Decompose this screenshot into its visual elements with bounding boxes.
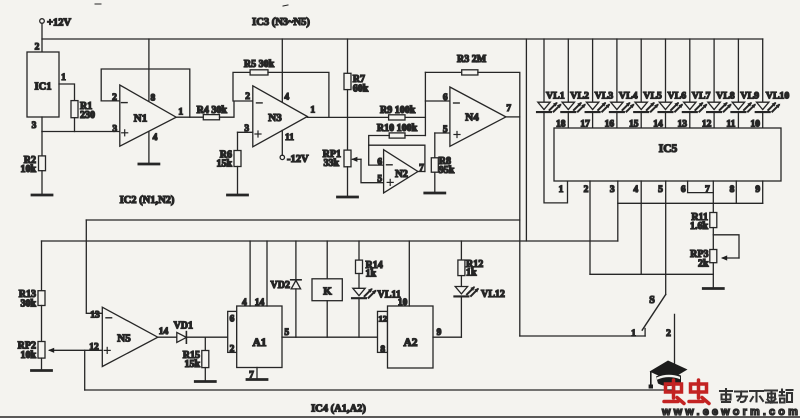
- resistor R10 100k: [389, 133, 405, 138]
- wire R7 chain from rail: [347, 39, 349, 73]
- resistor R5 30k: [250, 70, 268, 75]
- LED VL12: [460, 276, 462, 287]
- svg-text:-12V: -12V: [287, 154, 309, 165]
- svg-text:IC3 (N3~N5): IC3 (N3~N5): [252, 17, 310, 28]
- wire ground bus pin2-pin4-RP3: [590, 273, 713, 275]
- svg-text:VL6: VL6: [668, 91, 687, 102]
- svg-text:6: 6: [230, 314, 235, 324]
- resistor R14 1k: [358, 241, 360, 260]
- svg-text:S: S: [649, 295, 655, 306]
- resistor R12 1k: [460, 241, 462, 260]
- svg-text:1: 1: [631, 329, 636, 339]
- wire N4 pin6: [425, 100, 450, 102]
- svg-text:R10 100k: R10 100k: [377, 123, 418, 134]
- svg-text:1: 1: [310, 106, 315, 116]
- LED VL6: [665, 39, 667, 102]
- wire RP2 wiper to N5 pin12: [50, 349, 103, 351]
- wire +12V down to rail and IC1: [41, 23, 43, 52]
- svg-text:VD1: VD1: [174, 321, 193, 332]
- op-amp N4: [450, 87, 506, 146]
- svg-text:N5: N5: [117, 333, 131, 345]
- op-amp N3: [253, 86, 308, 147]
- LED VL10: [762, 39, 764, 102]
- svg-text:6: 6: [681, 185, 686, 195]
- svg-text:IC2 (N1,N2): IC2 (N1,N2): [120, 195, 175, 206]
- svg-text:7: 7: [705, 185, 710, 195]
- svg-text:2: 2: [584, 185, 589, 195]
- svg-text:R3 2M: R3 2M: [457, 54, 487, 65]
- svg-text:8: 8: [380, 345, 385, 355]
- wire R3 right to N4 output: [478, 72, 520, 117]
- svg-text:VL5: VL5: [643, 91, 662, 102]
- svg-text:1.6k: 1.6k: [690, 221, 709, 232]
- svg-text:1: 1: [61, 73, 66, 83]
- wire +12V drop left of IC5: [525, 39, 527, 241]
- svg-text:VL12: VL12: [481, 289, 505, 300]
- ground under RP3: [712, 263, 714, 289]
- svg-text:10k: 10k: [20, 350, 36, 361]
- resistor R9 100k: [389, 115, 405, 120]
- svg-text:+12V: +12V: [47, 18, 71, 29]
- svg-text:5: 5: [377, 175, 382, 185]
- resistor R4 30k: [203, 115, 219, 120]
- svg-text:12: 12: [378, 313, 387, 323]
- op-amp N1: [120, 85, 176, 146]
- wire A1 output line: [282, 336, 378, 338]
- svg-text:14: 14: [159, 327, 169, 337]
- stray scan marks: [95, 3, 101, 5]
- resistor R2 10k: [39, 156, 46, 171]
- svg-text:13: 13: [90, 311, 100, 321]
- svg-text:VD2: VD2: [271, 280, 290, 291]
- svg-text:IC1: IC1: [35, 82, 52, 93]
- svg-text:9: 9: [437, 328, 442, 338]
- wire R11 to RP3: [712, 228, 714, 250]
- resistor R3 2M: [462, 70, 478, 75]
- watermark graduation cap logo: [649, 361, 688, 389]
- resistor R7 60k: [344, 73, 351, 89]
- ground under R2: [41, 171, 43, 195]
- LED VL3: [592, 39, 594, 102]
- A1 input bracket pins 6,2: [228, 311, 237, 352]
- wire top +12V rail: [42, 38, 763, 40]
- wire N1 output to R4: [176, 116, 203, 118]
- resistor R8 95k: [434, 133, 436, 158]
- potentiometer RP3 2k: [710, 250, 717, 263]
- watermark site name text: [720, 389, 793, 403]
- wire R7 to RP1: [347, 90, 349, 151]
- svg-text:5: 5: [443, 125, 448, 135]
- svg-text:N4: N4: [465, 112, 479, 124]
- LED VL5: [640, 39, 642, 102]
- svg-text:2: 2: [35, 43, 40, 53]
- LED VL4: [616, 39, 618, 102]
- resistor R15 15k: [204, 337, 206, 350]
- potentiometer RP1 33k: [344, 150, 351, 167]
- svg-text:VL8: VL8: [716, 91, 735, 102]
- svg-text:15k: 15k: [184, 359, 200, 370]
- svg-text:4: 4: [284, 93, 289, 103]
- resistor R11 1.6k: [710, 213, 717, 228]
- svg-text:9: 9: [755, 185, 760, 195]
- wire N5 output: [158, 336, 177, 338]
- RP1 wiper arrow from N2 pin5: [353, 158, 362, 160]
- svg-text:11: 11: [285, 133, 294, 143]
- A2 input bracket pins 12,8: [378, 311, 388, 352]
- wire N1 feedback loop: [101, 69, 190, 117]
- svg-text:VL7: VL7: [692, 91, 711, 102]
- watermark red characters: [664, 380, 684, 404]
- wire IC1 pin3 down: [41, 117, 43, 132]
- svg-text:10k: 10k: [20, 164, 36, 175]
- wire S1 to N4 output: [520, 335, 645, 337]
- svg-text:VL2: VL2: [570, 91, 589, 102]
- wire bus pins 3-8-9: [618, 202, 763, 204]
- IC5: [554, 128, 781, 181]
- wire N1 pin8 from rail: [148, 39, 150, 102]
- svg-text:3: 3: [610, 185, 615, 195]
- svg-text:2: 2: [666, 329, 671, 339]
- wire +12V bus to R13 and IC5 pin3: [42, 240, 618, 242]
- svg-text:1: 1: [559, 185, 564, 195]
- LED VL8: [713, 39, 715, 102]
- potentiometer RP2 10k: [41, 306, 43, 342]
- wire R4 to N3 pin2: [220, 101, 253, 117]
- LED VL9: [737, 39, 739, 102]
- svg-text:1: 1: [178, 108, 183, 118]
- LED VL2: [567, 39, 569, 102]
- ground under RP2: [41, 358, 43, 370]
- resistor R6 15k: [237, 132, 239, 150]
- op-amp N5: [102, 307, 158, 366]
- svg-text:VL4: VL4: [619, 91, 638, 102]
- wire N2 feedback loop: [369, 145, 384, 165]
- svg-text:N3: N3: [268, 112, 282, 124]
- resistor R1 230: [71, 101, 78, 118]
- wire VL11 to output line: [358, 298, 360, 337]
- svg-text:33k: 33k: [323, 158, 339, 169]
- svg-text:2: 2: [245, 92, 250, 102]
- wire N1 pin4 + ground: [148, 132, 150, 164]
- ground under R8: [434, 172, 436, 193]
- svg-text:VL1: VL1: [546, 91, 565, 102]
- svg-text:R9 100k: R9 100k: [380, 105, 416, 116]
- svg-text:R5 30k: R5 30k: [244, 59, 275, 70]
- wire N3 pin4 from rail: [281, 39, 283, 102]
- svg-text:15k: 15k: [216, 159, 232, 170]
- op-amp N2: [384, 150, 418, 193]
- LED VL1: [543, 39, 545, 102]
- svg-text:K: K: [323, 286, 332, 298]
- svg-text:3: 3: [32, 121, 37, 131]
- svg-text:VL10: VL10: [766, 91, 790, 102]
- IC A1: [237, 306, 282, 368]
- svg-text:VL9: VL9: [740, 91, 759, 102]
- wire node A down to R2: [41, 132, 43, 156]
- relay K: [326, 241, 328, 279]
- svg-text:8: 8: [151, 94, 156, 104]
- svg-text:4: 4: [242, 298, 247, 308]
- svg-text:IC4 (A1,A2): IC4 (A1,A2): [311, 404, 366, 415]
- svg-text:5: 5: [284, 328, 289, 338]
- wire N5 pin13 drop: [86, 220, 102, 313]
- wire N3 feedback with R5: [233, 72, 250, 101]
- wire summing vertical (R3/R9/R10/N4 pin6): [424, 72, 426, 135]
- svg-text:2k: 2k: [698, 259, 709, 270]
- wire pins 6-7 down to R11: [712, 193, 714, 213]
- svg-text:A1: A1: [252, 337, 266, 349]
- wire R5 right to N3 output: [268, 72, 329, 117]
- svg-text:10: 10: [398, 298, 408, 308]
- ground under R15: [204, 368, 206, 382]
- wire VD1 to A1: [186, 336, 227, 338]
- svg-text:30k: 30k: [20, 299, 36, 310]
- wire node A to N1 pin3: [42, 131, 120, 133]
- -12V terminal at N3 pin11: [281, 130, 283, 155]
- svg-text:2: 2: [230, 344, 235, 354]
- svg-text:1k: 1k: [366, 269, 377, 280]
- wire N4 pin5: [435, 132, 450, 134]
- +12V supply terminal: [40, 19, 45, 24]
- wire IC1 pin1 to R1: [59, 84, 75, 101]
- ground under R6: [237, 167, 239, 196]
- IC1: [27, 52, 59, 117]
- svg-text:14: 14: [255, 298, 265, 308]
- wire R10 right to summing node: [405, 135, 425, 137]
- svg-text:R4 30k: R4 30k: [197, 105, 228, 116]
- svg-text:7: 7: [506, 104, 511, 114]
- resistor R13 30k: [41, 241, 43, 291]
- svg-text:3: 3: [112, 124, 117, 134]
- wire N2 output: [418, 171, 425, 173]
- wire N4 output down to switch: [519, 117, 521, 336]
- wire RP3 wiper tie: [713, 235, 739, 258]
- LED VL11: [358, 274, 360, 289]
- IC A2: [388, 306, 434, 368]
- svg-text:95k: 95k: [439, 165, 455, 176]
- svg-text:N1: N1: [134, 113, 147, 125]
- wire pin12 branch to bottom rail: [84, 350, 86, 390]
- wire branch to N5 pin13: [86, 219, 520, 221]
- wire VL12 to A2 pin9: [460, 296, 462, 337]
- wire R10 left to N2 feedback: [369, 136, 390, 146]
- svg-text:1k: 1k: [466, 267, 477, 278]
- svg-text:12: 12: [89, 342, 99, 352]
- LED VL7: [689, 39, 691, 102]
- svg-text:5: 5: [658, 185, 663, 195]
- wire R1 bottom to node: [74, 118, 76, 132]
- svg-text:6: 6: [443, 93, 448, 103]
- svg-text:IC5: IC5: [659, 143, 678, 155]
- svg-text:2: 2: [112, 93, 117, 103]
- wire N1 pin2 input: [101, 100, 120, 102]
- ground under RP1: [347, 167, 349, 197]
- svg-text:A2: A2: [403, 337, 417, 349]
- wire bottom rail: [85, 389, 675, 391]
- svg-text:6: 6: [377, 157, 382, 167]
- svg-text:60k: 60k: [353, 84, 369, 95]
- svg-text:8: 8: [730, 185, 735, 195]
- svg-text:N2: N2: [395, 169, 408, 180]
- wire N3 pin3: [238, 131, 253, 133]
- wire N4 output: [506, 116, 520, 118]
- svg-text:4: 4: [633, 185, 638, 195]
- svg-text:4: 4: [153, 133, 158, 143]
- wire R3 feedback: [425, 71, 461, 73]
- svg-text:VL3: VL3: [595, 91, 614, 102]
- svg-text:230: 230: [80, 110, 95, 121]
- bottom border line: [0, 416, 800, 418]
- wire N3 output line: [307, 116, 425, 118]
